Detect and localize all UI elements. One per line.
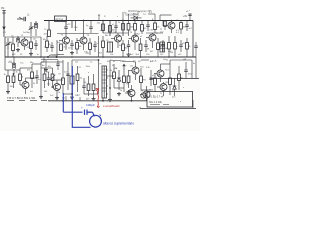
resistor R27: [43, 68, 50, 88]
capacitor C8: [93, 41, 98, 52]
capacitor C23: [86, 21, 93, 34]
text extra h: [152, 19, 179, 32]
text extra g: [100, 30, 142, 38]
svg-text:68n: 68n: [105, 35, 108, 37]
wire v x46 row3: [45, 60, 47, 68]
svg-text:22: 22: [160, 93, 162, 95]
capacitor C6: [49, 42, 54, 52]
svg-text:10k: 10k: [110, 54, 113, 56]
antenna ANT1: [1, 8, 6, 30]
component box bottom right: [147, 92, 193, 108]
resistor R6: [134, 21, 141, 37]
resistor R31: [84, 76, 90, 96]
text label T4b: [143, 12, 153, 16]
svg-text:n22: n22: [130, 66, 133, 68]
junction blob a: [13, 20, 124, 95]
svg-text:4u: 4u: [193, 63, 195, 65]
svg-text:100µF: 100µF: [86, 103, 95, 107]
transistor Q12: [140, 86, 150, 101]
wire link g: [63, 93, 72, 95]
wire col x63 row3: [62, 60, 64, 78]
transistor Q8: [20, 77, 29, 95]
wire x103 to bus: [102, 98, 104, 101]
wire link b: [72, 59, 99, 61]
wire tie x110: [106, 75, 114, 77]
transistor Q4: [111, 32, 122, 48]
resistor R10: [9, 42, 14, 57]
red label to amplifier: [103, 104, 120, 108]
wire stub x155 up: [148, 14, 155, 21]
wire link e: [20, 67, 32, 69]
svg-text:0.1n 2k: 0.1n 2k: [150, 61, 157, 63]
wire Q3 collector to bus: [83, 21, 85, 34]
wire stub x190 top: [189, 14, 191, 21]
capacitor C4: [185, 21, 192, 32]
svg-text:1k: 1k: [159, 47, 161, 49]
resistor R29 behind blue wire: [70, 60, 74, 94]
svg-text:68n: 68n: [30, 62, 33, 64]
text extra i: [30, 91, 54, 97]
capacitor C5: [33, 39, 38, 51]
wire parallel below bus b: [41, 59, 58, 61]
IF transformer IFT3: [160, 42, 165, 52]
resistor R25: [16, 68, 22, 85]
capacitor C3: [146, 21, 154, 32]
svg-text:150n: 150n: [86, 66, 90, 68]
blue wire from x72 down: [71, 66, 73, 128]
wire link h: [84, 93, 99, 95]
blue label speaker: [103, 122, 134, 126]
ground G x41: [39, 95, 43, 99]
transistor Q13: [154, 64, 169, 82]
svg-text:15n: 15n: [47, 84, 50, 86]
wire link f: [26, 77, 38, 79]
svg-text:Bn: Bn: [42, 65, 44, 67]
wire col x98: [98, 36, 100, 57]
capacitor C18: [184, 62, 192, 79]
wire stub x44 mid: [41, 57, 44, 62]
wire box to bus2: [140, 100, 193, 109]
resistor R2: [97, 23, 105, 31]
resistor R38: [166, 78, 172, 95]
wire stub x99 up: [98, 15, 100, 21]
text extra a: [12, 54, 57, 57]
wire tie q7: [146, 32, 163, 34]
svg-text:c: c: [117, 16, 118, 18]
svg-text:68k: 68k: [9, 42, 12, 44]
text extra m: [163, 59, 195, 65]
junction dots mid bus: [40, 56, 170, 58]
resistor R16: [99, 36, 105, 57]
capacitor C20: [186, 11, 192, 16]
text above bus small: [62, 95, 80, 100]
capacitor C2: [112, 21, 118, 34]
svg-text:10k: 10k: [48, 66, 51, 68]
svg-text:2k: 2k: [188, 46, 190, 48]
svg-text:1u: 1u: [90, 62, 92, 64]
text extra d: [110, 54, 182, 56]
wire link i: [114, 87, 124, 89]
coupling coil L2: [34, 21, 37, 36]
resistor R26: [27, 64, 33, 88]
wire col x68 row3: [67, 62, 69, 90]
ground G x63b: [44, 68, 48, 72]
coil L4: [16, 36, 20, 52]
wire right edge drop: [195, 57, 197, 79]
svg-text:5k: 5k: [166, 60, 168, 62]
red squiggle wire: [97, 91, 98, 108]
capacitor C9: [127, 40, 131, 56]
resistor R37: [150, 74, 157, 93]
wire junction x163: [162, 21, 164, 27]
resistor R19: [157, 38, 162, 57]
wire tie 44-52: [41, 67, 53, 69]
text sprinkle row3 a: [33, 65, 50, 86]
transistor Q9: [51, 78, 61, 96]
wire tie row3 left: [5, 69, 20, 71]
diode D3: [173, 78, 177, 96]
blue speaker SP1: [90, 115, 102, 128]
junction dots top bus: [65, 20, 172, 22]
svg-text:2n: 2n: [49, 44, 51, 46]
svg-text:5p: 5p: [160, 29, 162, 31]
resistor R23: [4, 70, 11, 94]
pen squiggle above bus: [49, 54, 64, 55]
wire antenna to coil: [3, 30, 5, 37]
text extra e: [3, 32, 30, 34]
svg-text:1n: 1n: [124, 12, 126, 14]
red cross mark: [96, 88, 99, 91]
text tr bits: [176, 10, 190, 34]
wire col x98 row3: [98, 60, 100, 94]
svg-text:S0n 1.0 10k: S0n 1.0 10k: [149, 101, 163, 104]
text extra k: [112, 65, 150, 69]
text row3 mid: [77, 66, 90, 69]
wire parallel below bus a: [141, 59, 149, 61]
resistor R7: [141, 21, 148, 35]
transistor Q1: [18, 35, 28, 50]
svg-text:1: 1: [153, 96, 154, 98]
resistor R20: [168, 36, 171, 57]
resistor R11: [27, 37, 34, 56]
resistor R4: [118, 22, 124, 30]
svg-text:2x330p: 2x330p: [23, 32, 30, 34]
text L3: [11, 36, 14, 38]
diode D2 vertical: [115, 67, 121, 90]
wire link d: [161, 63, 171, 65]
variable capacitor CV2: [6, 38, 11, 57]
text extra l: [153, 87, 185, 98]
svg-text:n1: n1: [140, 36, 142, 38]
red arrowhead: [97, 106, 99, 108]
wire tie row2 right: [103, 32, 129, 34]
wire col x41 row3: [40, 62, 42, 95]
wire right bus y78: [150, 78, 199, 80]
blue wire cap to speaker: [93, 112, 95, 115]
resistor R22: [186, 38, 191, 57]
IF transformer IFT2: [100, 64, 107, 99]
text title block: [125, 10, 153, 17]
wire stub x123 up: [123, 12, 129, 21]
wire tie row2 left: [5, 36, 41, 38]
resistor R32: [92, 74, 99, 97]
resistor R9: [180, 21, 187, 35]
junction dots bus: [62, 100, 132, 102]
IF transformer IFT1 row2: [107, 40, 113, 52]
wire col x41: [40, 37, 42, 57]
svg-text:T.B 0.7 8Ω 0.5W 1.5Ω: T.B 0.7 8Ω 0.5W 1.5Ω: [7, 96, 36, 100]
resistor R1: [44, 30, 51, 37]
svg-text:2k: 2k: [110, 70, 112, 72]
resistor R14: [76, 38, 79, 54]
ferrite rod antenna L1: [17, 14, 30, 21]
svg-text:FM: FM: [1, 8, 4, 10]
svg-text:0.1 Qj. 0.7 n4: 0.1 Qj. 0.7 n4: [149, 96, 164, 99]
resistor R3: [109, 26, 117, 33]
capacitor C10: [144, 40, 150, 52]
capacitor C14: [47, 72, 50, 86]
resistor R8: [154, 21, 160, 34]
wire link c: [110, 60, 136, 62]
volume pot VR1: [48, 66, 56, 88]
wire drop x123: [122, 21, 124, 37]
transistor Q3: [77, 33, 90, 50]
resistor R39: [178, 66, 184, 90]
resistor R30: [76, 66, 83, 92]
svg-text:n68: n68: [183, 59, 186, 61]
wire col x57 row2: [56, 40, 58, 57]
transistor Q5: [129, 32, 139, 50]
wire link a: [41, 61, 63, 63]
coil L5: [10, 57, 16, 74]
transistor Q10: [129, 62, 145, 80]
capacitor C15: [64, 72, 70, 76]
transistor Q7: [146, 33, 159, 48]
svg-text:100u: 100u: [188, 74, 192, 76]
text sprinkle top a: [104, 12, 141, 19]
capacitor C13: [35, 70, 42, 84]
svg-text:+9V: +9V: [183, 16, 188, 18]
svg-text:22k: 22k: [75, 62, 78, 64]
resistor R35: [127, 70, 130, 88]
resistor R24: [10, 74, 15, 88]
wire drop x66: [65, 21, 67, 28]
resistor R21: [170, 36, 176, 57]
svg-text:2k: 2k: [33, 83, 35, 85]
blue electrolytic capacitor C19: [81, 106, 93, 115]
svg-text:altavoz suplementario: altavoz suplementario: [103, 122, 134, 126]
resistor R34: [120, 76, 126, 92]
resistor R28: [58, 78, 64, 94]
svg-text:c: c: [189, 10, 190, 12]
svg-text:0.3: 0.3: [176, 30, 179, 32]
text sprinkle row2 a: [84, 51, 172, 54]
wire link j: [141, 89, 151, 91]
text extra c: [107, 60, 153, 63]
circle meter M1: [141, 91, 147, 99]
wire drop x72: [71, 21, 73, 29]
resistor R17: [122, 40, 129, 57]
transistor Q2: [59, 33, 70, 50]
svg-text:n22: n22: [62, 98, 65, 100]
transistor Q6: [163, 20, 179, 33]
resistor R41: [160, 21, 166, 34]
wire stub y96: [66, 96, 80, 101]
wire col x110 row3: [109, 60, 111, 98]
tuning capacitor CV1: [29, 22, 34, 36]
text below bus left: [8, 62, 33, 65]
svg-text:0.45: 0.45: [146, 67, 150, 69]
resistor R12: [43, 36, 49, 52]
svg-text:0.1: 0.1: [77, 95, 80, 97]
ground symbols bottom: [55, 90, 131, 102]
svg-text:BF324: BF324: [56, 18, 64, 21]
capacitor C7: [68, 40, 74, 55]
capacitor C11: [161, 40, 168, 52]
battery label: [183, 16, 188, 18]
label box oscillator: [55, 16, 67, 22]
IFT2 inner dashes: [103, 69, 108, 94]
resistor R13: [57, 42, 63, 51]
capacitor C1: [64, 27, 67, 33]
wire col x192 row3: [191, 60, 193, 79]
text row2 annotations: [44, 45, 178, 49]
text extra j: [75, 95, 90, 101]
capacitor C12: [179, 40, 186, 52]
wire tie x57 top: [51, 79, 63, 81]
wire tie row2 mid: [57, 33, 99, 35]
wire col x13 row2: [12, 37, 14, 44]
text sprinkle row3 b: [58, 72, 90, 76]
resistor R5: [127, 21, 134, 37]
wire drop x110: [109, 21, 111, 37]
svg-text:1n: 1n: [96, 43, 98, 45]
svg-text:a amplificador: a amplificador: [103, 104, 120, 108]
text under bus mid: [113, 61, 137, 64]
resistor R36: [140, 68, 147, 90]
wire left rail row3: [4, 57, 6, 70]
text extra f: [44, 24, 78, 31]
resistor R18: [136, 38, 142, 57]
blue wire from x63 down: [63, 93, 82, 112]
wire right area v1: [169, 60, 171, 78]
wire tie row3 e: [32, 63, 41, 65]
capacitor C16: [82, 78, 85, 94]
wire tie right: [170, 59, 192, 61]
svg-text:1k: 1k: [4, 74, 6, 76]
wire bottom ground bus: [48, 100, 147, 102]
blue wire bottom to speaker: [72, 126, 90, 128]
diode D1: [131, 13, 142, 20]
wire right vertical rail: [192, 21, 194, 58]
wire stub x160 top: [160, 15, 172, 21]
transistor Q11: [125, 84, 135, 101]
text bottom left row: [7, 96, 47, 100]
arrow up symbol: [123, 64, 128, 76]
blue label 100uF: [86, 103, 95, 107]
transistor Q14: [157, 82, 167, 96]
wire drop x103: [102, 21, 104, 34]
svg-text:1n: 1n: [37, 54, 39, 56]
wire drop x75: [75, 21, 77, 32]
wire bottom right bus: [140, 108, 196, 110]
wire bus drop x49: [48, 21, 50, 31]
resistor R15: [86, 38, 92, 55]
capacitor C22: [194, 42, 197, 57]
wire top supply bus: [44, 20, 193, 22]
svg-text:10n: 10n: [68, 48, 71, 50]
text below bus right: [150, 60, 168, 63]
text extra b: [57, 62, 92, 64]
resistor R33: [110, 64, 115, 88]
capacitor C21: [56, 60, 59, 70]
wire left vertical rail: [4, 37, 6, 57]
wire mid bus: [5, 56, 196, 58]
capacitor C17: [149, 70, 155, 86]
svg-text:1k: 1k: [118, 22, 120, 24]
